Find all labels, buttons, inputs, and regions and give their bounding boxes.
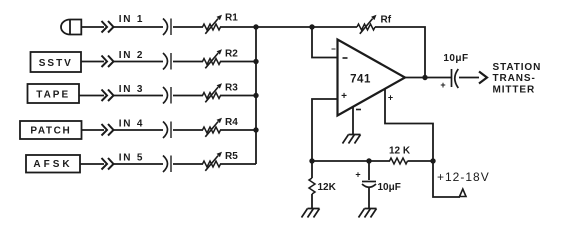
svg-text:+: +	[440, 80, 445, 90]
svg-text:+: +	[388, 93, 393, 103]
svg-text:741: 741	[350, 73, 371, 85]
svg-text:R5: R5	[225, 151, 238, 162]
svg-text:IN 5: IN 5	[119, 153, 145, 164]
svg-text:+: +	[355, 170, 360, 180]
svg-text:IN 4: IN 4	[119, 119, 145, 130]
svg-text:AFSK: AFSK	[33, 159, 72, 170]
svg-text:IN 3: IN 3	[119, 84, 145, 95]
svg-text:IN 2: IN 2	[119, 50, 145, 61]
svg-text:SSTV: SSTV	[39, 58, 73, 69]
svg-text:+12-18V: +12-18V	[437, 170, 490, 184]
svg-text:R3: R3	[225, 83, 238, 94]
svg-text:TRANS-: TRANS-	[493, 73, 536, 84]
svg-text:10μF: 10μF	[443, 53, 468, 64]
svg-text:12K: 12K	[318, 182, 337, 193]
svg-text:IN 1: IN 1	[119, 14, 145, 25]
svg-text:10μF: 10μF	[378, 182, 401, 193]
svg-text:PATCH: PATCH	[30, 126, 71, 137]
svg-text:STATION: STATION	[493, 62, 542, 73]
svg-text:+: +	[341, 91, 347, 102]
svg-text:R1: R1	[225, 13, 238, 24]
svg-text:12 K: 12 K	[389, 146, 411, 157]
svg-text:R4: R4	[225, 117, 238, 128]
svg-text:MITTER: MITTER	[493, 84, 536, 95]
svg-text:TAPE: TAPE	[36, 90, 70, 101]
svg-text:Rf: Rf	[381, 15, 392, 26]
svg-text:R2: R2	[225, 49, 238, 60]
